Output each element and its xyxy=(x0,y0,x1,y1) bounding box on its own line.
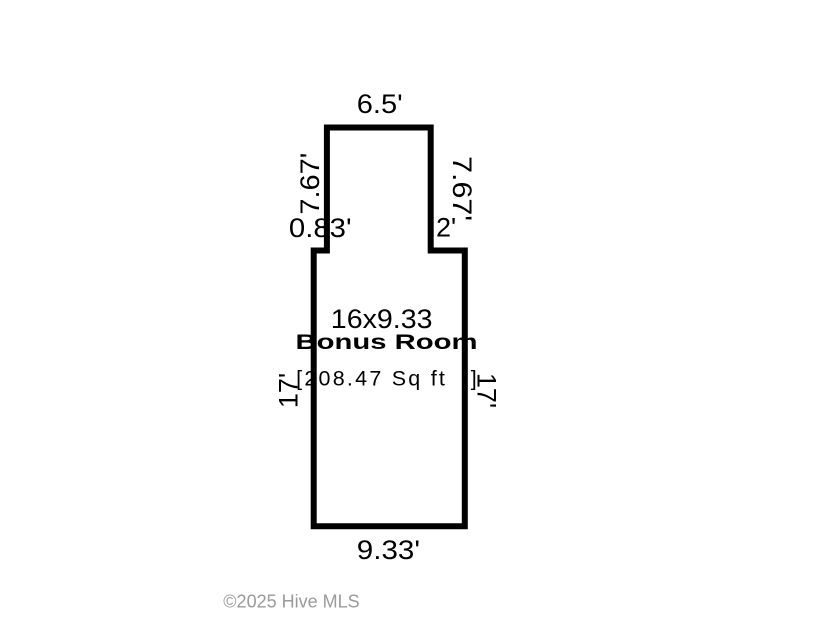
svg-text:Bonus Room: Bonus Room xyxy=(296,330,478,354)
svg-text:7.67': 7.67' xyxy=(295,153,325,215)
svg-text:©2025 Hive MLS: ©2025 Hive MLS xyxy=(223,591,359,611)
svg-text:[208.47 Sq ft: [208.47 Sq ft xyxy=(296,366,445,390)
svg-text:9.33': 9.33' xyxy=(357,535,420,565)
svg-text:]: ] xyxy=(471,366,477,390)
svg-text:7.67': 7.67' xyxy=(447,156,477,221)
svg-text:2': 2' xyxy=(436,213,456,243)
svg-text:6.5': 6.5' xyxy=(357,89,403,119)
svg-text:0.83': 0.83' xyxy=(289,213,352,243)
